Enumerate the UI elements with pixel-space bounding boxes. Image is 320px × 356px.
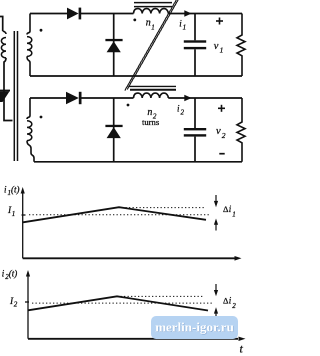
svg-text:2: 2 xyxy=(232,302,236,310)
svg-text:1: 1 xyxy=(232,211,236,219)
svg-text:2: 2 xyxy=(14,301,18,309)
plot1 y-axis xyxy=(22,191,24,258)
plot2 y-axis xyxy=(27,275,29,339)
svg-text:(t): (t) xyxy=(11,185,20,195)
polarity dot n2 xyxy=(127,104,130,107)
diode Dp (cropped at left edge) xyxy=(0,90,10,92)
watermark merlin-igor.ru xyxy=(151,316,238,339)
dotted line peak level plot2 xyxy=(117,295,204,297)
diode D3 xyxy=(66,92,79,104)
wire circuit1 top left xyxy=(30,13,67,15)
diode D1 xyxy=(67,8,79,20)
current arrow i2 xyxy=(184,95,191,101)
svg-text:n: n xyxy=(146,18,151,29)
plot2 x-axis xyxy=(28,338,238,340)
diode D4f freewheel circuit2 xyxy=(113,98,115,162)
label plus v1 xyxy=(216,18,223,25)
wire primary top stub xyxy=(0,17,3,32)
capacitor C1 xyxy=(194,14,196,41)
wire circuit2 top middle xyxy=(80,97,134,99)
svg-text:1: 1 xyxy=(220,46,224,55)
dotted line I2 level plot2 xyxy=(32,302,213,304)
polarity dot n1 xyxy=(133,19,136,22)
current arrow i1 xyxy=(184,10,191,16)
tick I2 xyxy=(25,301,29,303)
dotted line I1 level plot1 xyxy=(29,214,210,216)
delta i1 arrows xyxy=(215,195,217,204)
resistor R1 xyxy=(237,14,245,77)
svg-text:n: n xyxy=(147,107,152,118)
wire circuit2 bottom xyxy=(34,161,242,163)
svg-text:i: i xyxy=(229,204,232,214)
svg-text:v: v xyxy=(214,41,219,52)
label minus v2 xyxy=(219,153,224,155)
svg-text:i: i xyxy=(229,295,232,305)
coupled core diagonal xyxy=(125,0,179,91)
svg-text:v: v xyxy=(216,126,221,137)
tick I1 xyxy=(22,214,26,216)
dotted line peak level plot1 xyxy=(115,207,205,209)
wire circuit1 bottom xyxy=(30,75,242,77)
wire primary lower lead xyxy=(4,58,13,121)
inductor n1 xyxy=(134,9,169,14)
transformer secondary winding 2 xyxy=(27,98,30,119)
transformer secondary winding 1 xyxy=(27,14,30,35)
waveform i1 xyxy=(23,207,206,222)
wire circuit2 top left xyxy=(30,97,66,99)
svg-text:1: 1 xyxy=(151,23,155,31)
transformer primary winding xyxy=(3,31,6,34)
polarity dot winding 2 xyxy=(40,116,43,119)
label plus v2 xyxy=(218,105,225,112)
transformer core xyxy=(13,31,15,161)
diode D2f freewheel circuit1 xyxy=(113,14,115,77)
svg-text:(t): (t) xyxy=(9,268,17,278)
svg-text:merlin-igor.ru: merlin-igor.ru xyxy=(155,320,234,335)
svg-text:2: 2 xyxy=(222,131,226,140)
core bar above n1 xyxy=(134,2,172,4)
plot1 x-axis xyxy=(23,257,236,259)
wire circuit2 top right xyxy=(168,97,242,99)
delta i2 arrows xyxy=(215,284,217,293)
svg-text:1: 1 xyxy=(12,210,16,218)
svg-text:turns: turns xyxy=(142,117,160,127)
svg-text:1: 1 xyxy=(183,23,187,31)
inductor n2 xyxy=(134,93,169,98)
svg-text:2: 2 xyxy=(181,109,185,117)
wire circuit1 top middle xyxy=(81,13,134,15)
core bar above n2 xyxy=(129,85,176,87)
polarity dot winding 1 xyxy=(40,29,43,32)
capacitor C2 xyxy=(194,98,196,128)
resistor R2 xyxy=(237,98,245,162)
waveform i2 xyxy=(28,296,208,310)
wire circuit1 top right xyxy=(168,13,242,15)
svg-text:t: t xyxy=(240,342,244,356)
